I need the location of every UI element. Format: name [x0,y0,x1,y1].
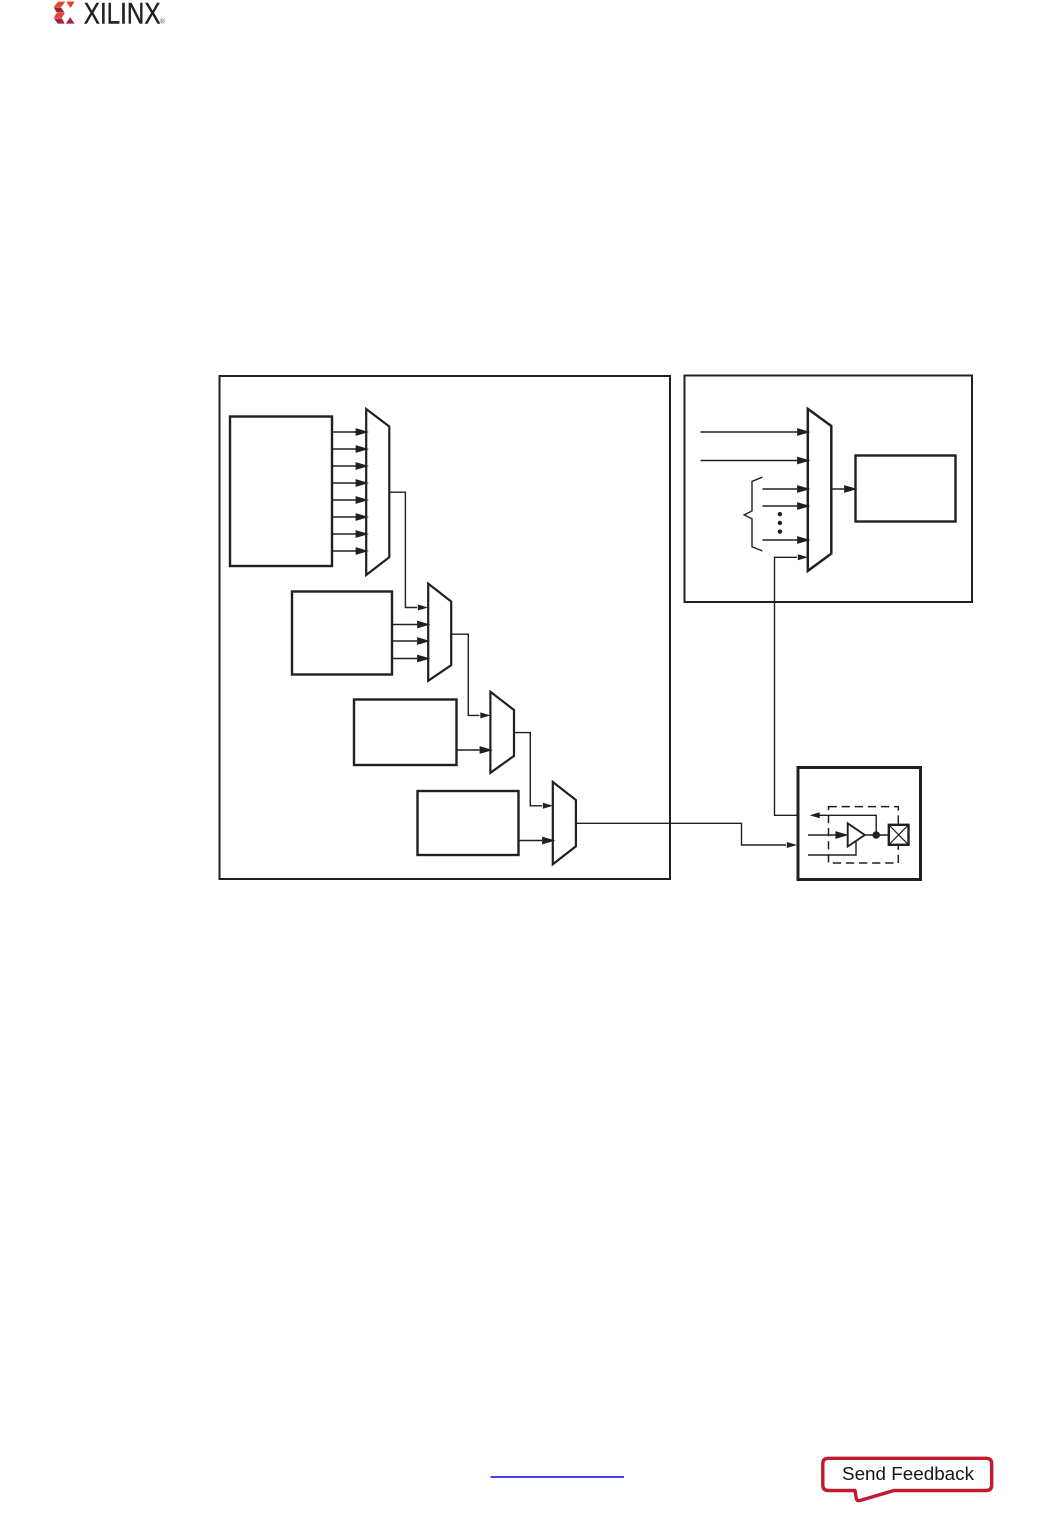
right outer box [685,376,973,603]
send feedback bubble [823,1458,992,1500]
wire input 3 to M5 [763,486,809,492]
mux M5 [808,409,832,571]
block B2 [292,592,392,675]
wire input 4 to M5 [763,503,809,509]
wire output left arrow [810,812,877,833]
wires B1 to M1 [333,429,367,554]
wire M5 output to B5 [832,486,855,492]
tristate wire [808,841,856,855]
mux M1 [366,409,389,575]
dashed IOB boundary [829,807,899,863]
wire input 5 to M5 [763,537,809,543]
svg-text:Send Feedback: Send Feedback [842,1464,975,1484]
wire B4 to M4 [519,838,554,844]
wires B2 to M2 [392,622,428,662]
ellipsis dots [778,512,782,534]
Xilinx logo mark [54,2,75,24]
wire B3 to M3 [457,747,491,753]
wire input to buffer [808,832,846,838]
wire input 1 to M5 [701,429,809,435]
buffer triangle [848,823,865,846]
wire input 2 to M5 [701,458,809,464]
wire M1 output to M2 [389,492,428,610]
block B5 [856,456,956,522]
block B4 [418,791,519,855]
wire feedback from I/O block to M5 [775,554,809,815]
pad X-box [889,825,909,845]
mux M3 [490,692,514,773]
svg-text:XILINX: XILINX [84,0,161,31]
svg-text:®: ® [160,18,165,25]
wire buffer output to pad (behind) [864,834,889,836]
Xilinx logotype [84,0,166,31]
left outer box [220,376,671,879]
junction dot [872,831,880,839]
mux M2 [428,584,451,681]
block B1 [230,417,332,567]
block B3 [354,700,457,766]
wire M2 output to M3 [451,634,490,718]
wire M4 output to I/O block [576,823,797,848]
brace [744,477,762,551]
hyperlink rule [491,1476,625,1478]
mux M4 [553,782,576,864]
I/O block [798,768,921,880]
wire M3 output to M4 [514,733,553,809]
